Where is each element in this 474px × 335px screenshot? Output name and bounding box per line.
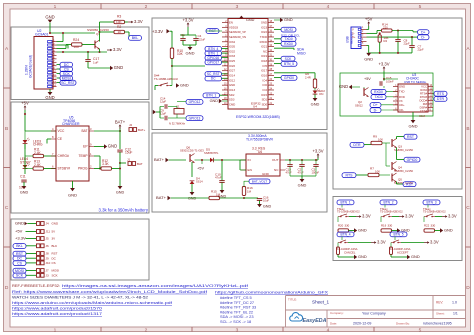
svg-text:J9: J9 bbox=[46, 256, 49, 260]
svg-text:https://www.adafruit.com/produ: https://www.adafruit.com/product/1317 bbox=[12, 311, 103, 316]
svg-text:https://github.com/moononourna: https://github.com/moononournation/Ardui… bbox=[215, 289, 329, 294]
svg-text:J3: J3 bbox=[46, 273, 49, 277]
svg-text:D: D bbox=[5, 285, 9, 291]
svg-text:D+: D+ bbox=[352, 35, 356, 39]
svg-text:BAT+: BAT+ bbox=[138, 128, 146, 132]
svg-text:C: C bbox=[466, 205, 470, 211]
svg-text:R4: R4 bbox=[384, 39, 388, 43]
svg-text:RST: RST bbox=[16, 252, 24, 256]
svg-text:NC: NC bbox=[263, 49, 267, 53]
svg-text:BAT+: BAT+ bbox=[156, 195, 167, 200]
svg-text:Date:: Date: bbox=[330, 321, 337, 325]
svg-text:EP: EP bbox=[83, 145, 87, 149]
svg-text:TXD0: TXD0 bbox=[284, 37, 292, 41]
svg-text:4: 4 bbox=[327, 327, 330, 333]
svg-text:CS: CS bbox=[52, 261, 56, 265]
svg-text:BTN_3: BTN_3 bbox=[426, 201, 436, 205]
svg-text:SS8050_C2150: SS8050_C2150 bbox=[394, 169, 413, 173]
svg-text:https://images-na.ssl-images-a: https://images-na.ssl-images-amazon.com/… bbox=[62, 283, 249, 288]
svg-text:U4: U4 bbox=[253, 105, 257, 109]
svg-text:3.3V: 3.3V bbox=[405, 214, 414, 219]
svg-text:GND: GND bbox=[399, 85, 405, 89]
svg-text:CHRG: CHRG bbox=[33, 143, 43, 147]
svg-text:GND: GND bbox=[114, 65, 123, 70]
svg-text:RXD0: RXD0 bbox=[284, 42, 293, 46]
svg-text:IO14: IO14 bbox=[229, 74, 235, 78]
svg-text:22uF: 22uF bbox=[199, 37, 205, 41]
svg-text:J1: J1 bbox=[127, 157, 130, 161]
svg-text:2.4K: 2.4K bbox=[34, 163, 41, 167]
svg-text:+3.3V: +3.3V bbox=[15, 236, 26, 241]
svg-text:+5V: +5V bbox=[364, 77, 371, 81]
svg-text:SCK: SCK bbox=[63, 72, 71, 76]
svg-text:BTN_4: BTN_4 bbox=[340, 233, 350, 237]
svg-text:N 32.768KHz: N 32.768KHz bbox=[169, 122, 186, 126]
svg-text:10K: 10K bbox=[378, 137, 383, 141]
svg-text:2: 2 bbox=[145, 327, 148, 333]
svg-text:R9: R9 bbox=[373, 134, 377, 138]
svg-text:SC_RST: SC_RST bbox=[207, 72, 220, 76]
svg-text:DC: DC bbox=[64, 63, 70, 67]
svg-text:SD2: SD2 bbox=[229, 93, 235, 97]
svg-text:DTR: DTR bbox=[437, 97, 445, 101]
svg-text:IO0: IO0 bbox=[263, 83, 268, 87]
svg-text:RST: RST bbox=[406, 182, 414, 186]
svg-text:3.3V: 3.3V bbox=[377, 240, 386, 245]
svg-text:10uF: 10uF bbox=[263, 199, 269, 203]
svg-text:3V: 3V bbox=[52, 237, 56, 241]
svg-text:RTS: RTS bbox=[346, 173, 354, 177]
svg-text:100nF: 100nF bbox=[386, 79, 394, 83]
svg-text:10K: 10K bbox=[177, 52, 184, 56]
svg-text:ON: ON bbox=[319, 92, 323, 96]
svg-text:GND: GND bbox=[262, 172, 270, 176]
svg-text:IO34: IO34 bbox=[229, 40, 235, 44]
svg-text:+5V: +5V bbox=[365, 17, 373, 22]
svg-text:GND: GND bbox=[15, 221, 24, 226]
svg-text:R24: R24 bbox=[73, 38, 79, 42]
svg-text:GND: GND bbox=[116, 190, 125, 194]
svg-text:GND: GND bbox=[45, 95, 54, 100]
svg-text:100: 100 bbox=[74, 45, 79, 49]
svg-text:EN: EN bbox=[248, 168, 252, 172]
svg-text:GND: GND bbox=[52, 222, 59, 226]
svg-text:IO15: IO15 bbox=[261, 93, 267, 97]
svg-text:TLV75533PDBVR: TLV75533PDBVR bbox=[246, 138, 274, 142]
svg-text:RXD0: RXD0 bbox=[260, 40, 268, 44]
svg-text:D: D bbox=[466, 285, 470, 291]
svg-text:J4: J4 bbox=[46, 222, 49, 226]
svg-text:22pF: 22pF bbox=[404, 42, 410, 46]
svg-text:BKL: BKL bbox=[132, 36, 139, 40]
svg-text:+5V: +5V bbox=[21, 101, 29, 106]
svg-text:EasyEDA: EasyEDA bbox=[303, 318, 327, 324]
svg-text:GPIO13: GPIO13 bbox=[189, 116, 201, 120]
svg-text:15uF: 15uF bbox=[125, 151, 132, 155]
svg-text:OUT: OUT bbox=[272, 158, 279, 162]
svg-text:DC: DC bbox=[211, 77, 216, 81]
svg-text:10K: 10K bbox=[375, 169, 380, 173]
svg-text:TS-1096B-A2B3-D2: TS-1096B-A2B3-D2 bbox=[380, 210, 403, 214]
svg-text:GND: GND bbox=[358, 254, 367, 259]
svg-text:TS-1096B-A2B3-D2: TS-1096B-A2B3-D2 bbox=[154, 77, 178, 81]
svg-text:C11: C11 bbox=[20, 175, 26, 179]
svg-text:NC: NC bbox=[274, 168, 279, 172]
svg-text:GND: GND bbox=[444, 228, 453, 233]
svg-text:GND: GND bbox=[229, 83, 235, 87]
svg-text:12pF: 12pF bbox=[160, 112, 166, 116]
svg-text:IO35: IO35 bbox=[229, 45, 235, 49]
svg-text:SCL -> SCK -> 18: SCL -> SCK -> 18 bbox=[220, 319, 251, 324]
svg-text:SD1: SD1 bbox=[262, 98, 268, 102]
svg-text:22pF: 22pF bbox=[418, 48, 424, 52]
svg-text:SS8050TPL: SS8050TPL bbox=[204, 151, 219, 155]
svg-text:PROG: PROG bbox=[78, 167, 88, 171]
svg-text:ACCEPT: ACCEPT bbox=[397, 250, 409, 254]
svg-text:STDBY: STDBY bbox=[20, 160, 32, 164]
svg-text:WATCH SIZES DIAMETERS J M -> 3: WATCH SIZES DIAMETERS J M -> 32-41, L ->… bbox=[12, 294, 149, 299]
svg-text:SCK: SCK bbox=[285, 57, 292, 61]
svg-text:SCK: SCK bbox=[52, 273, 58, 277]
svg-text:CS: CS bbox=[64, 67, 70, 71]
svg-text:rubenchevez1995: rubenchevez1995 bbox=[423, 322, 452, 326]
svg-text:R19: R19 bbox=[381, 223, 387, 227]
svg-text:BTN_4: BTN_4 bbox=[208, 47, 218, 51]
svg-text:TS-1096B-A2B3-D2: TS-1096B-A2B3-D2 bbox=[337, 210, 360, 214]
svg-text:C1: C1 bbox=[181, 33, 185, 37]
svg-text:S9301CDS-T1-GE3: S9301CDS-T1-GE3 bbox=[180, 149, 204, 153]
svg-text:GND: GND bbox=[364, 57, 373, 62]
svg-text:IO19: IO19 bbox=[261, 54, 267, 58]
svg-text:GND: GND bbox=[358, 228, 367, 233]
svg-text:3.3k for a 350mAh battery: 3.3k for a 350mAh battery bbox=[99, 207, 149, 212]
svg-text:BTN_1: BTN_1 bbox=[208, 52, 218, 56]
svg-text:BTN_5: BTN_5 bbox=[284, 62, 294, 66]
svg-text:TXD: TXD bbox=[399, 90, 405, 94]
svg-text:IO22: IO22 bbox=[261, 30, 267, 34]
svg-text:USB: USB bbox=[346, 36, 350, 43]
svg-text:IO13: IO13 bbox=[229, 88, 235, 92]
svg-text:+5V: +5V bbox=[15, 229, 23, 234]
svg-text:RXD0: RXD0 bbox=[374, 90, 383, 94]
svg-text:GND: GND bbox=[263, 204, 272, 208]
svg-text:2: 2 bbox=[145, 4, 148, 10]
svg-text:+3.3V: +3.3V bbox=[312, 149, 323, 154]
svg-text:3.3V: 3.3V bbox=[430, 240, 439, 245]
svg-text:330: 330 bbox=[345, 223, 350, 227]
svg-text:BAT+: BAT+ bbox=[115, 120, 126, 125]
svg-text:RST: RST bbox=[52, 252, 58, 256]
svg-text:GPIO0: GPIO0 bbox=[284, 76, 294, 80]
svg-text:R2: R2 bbox=[117, 25, 121, 29]
svg-text:3: 3 bbox=[236, 4, 239, 10]
svg-text:GPIO0: GPIO0 bbox=[407, 158, 418, 162]
svg-text:+3.3V: +3.3V bbox=[378, 62, 389, 67]
svg-text:IN: IN bbox=[248, 158, 251, 162]
svg-text:+3.3V: +3.3V bbox=[182, 18, 193, 23]
svg-text:R7: R7 bbox=[370, 166, 374, 170]
svg-text:STDBY#: STDBY# bbox=[58, 167, 71, 171]
svg-text:4: 4 bbox=[327, 4, 330, 10]
svg-text:C114: C114 bbox=[419, 114, 426, 118]
svg-text:Drawn By:: Drawn By: bbox=[396, 321, 410, 325]
svg-text:GND: GND bbox=[45, 15, 54, 20]
svg-text:12pF: 12pF bbox=[160, 100, 166, 104]
svg-text:IO4: IO4 bbox=[263, 78, 268, 82]
svg-text:Company:: Company: bbox=[330, 311, 344, 315]
svg-text:TEMP: TEMP bbox=[79, 154, 88, 158]
svg-text:2.4R: 2.4R bbox=[305, 75, 311, 79]
svg-text:BTN_2: BTN_2 bbox=[383, 201, 393, 205]
svg-text:5V: 5V bbox=[52, 230, 56, 234]
svg-text:1.0: 1.0 bbox=[452, 301, 457, 305]
svg-text:BAT: BAT bbox=[137, 162, 143, 166]
svg-text:CMD: CMD bbox=[229, 102, 235, 106]
svg-text:TXD0: TXD0 bbox=[374, 95, 382, 99]
svg-text:REF-FIREBEETLE-ESP32:: REF-FIREBEETLE-ESP32: bbox=[12, 283, 60, 288]
svg-text:B: B bbox=[5, 126, 8, 132]
svg-text:MOSI: MOSI bbox=[284, 28, 292, 32]
svg-text:RST: RST bbox=[407, 135, 415, 139]
svg-text:GND: GND bbox=[409, 124, 418, 129]
svg-text:IO16: IO16 bbox=[261, 74, 267, 78]
svg-text:VCC: VCC bbox=[58, 129, 65, 133]
svg-text:BTN_1: BTN_1 bbox=[206, 94, 216, 98]
svg-text:GC9A01: GC9A01 bbox=[35, 33, 48, 37]
svg-text:TXD0: TXD0 bbox=[260, 35, 268, 39]
svg-text:C: C bbox=[5, 205, 9, 211]
svg-text:J5: J5 bbox=[46, 237, 49, 241]
svg-text:BLK: BLK bbox=[52, 244, 58, 248]
svg-text:CHRG#: CHRG# bbox=[58, 154, 70, 158]
svg-text:GND: GND bbox=[210, 99, 219, 103]
svg-text:J8: J8 bbox=[46, 252, 49, 256]
svg-text:IO18: IO18 bbox=[261, 59, 267, 63]
svg-text:GND: GND bbox=[284, 17, 293, 22]
svg-text:J10: J10 bbox=[46, 261, 51, 265]
svg-text:RTS: RTS bbox=[437, 92, 445, 96]
svg-text:ESP32-WROOM-32D(16MB): ESP32-WROOM-32D(16MB) bbox=[236, 115, 280, 119]
svg-text:Your Company: Your Company bbox=[362, 312, 386, 316]
svg-text:SC_RST: SC_RST bbox=[61, 81, 76, 85]
svg-text:BTN_1: BTN_1 bbox=[340, 201, 350, 205]
svg-text:U6: U6 bbox=[258, 150, 262, 154]
svg-text:DC: DC bbox=[17, 257, 23, 261]
svg-text:47uF: 47uF bbox=[298, 171, 304, 175]
svg-text:IO5: IO5 bbox=[263, 64, 268, 68]
svg-text:1M: 1M bbox=[247, 189, 252, 193]
svg-text:IO2: IO2 bbox=[263, 88, 268, 92]
svg-text:BAT_VOLT: BAT_VOLT bbox=[252, 180, 267, 184]
svg-text:IO32: IO32 bbox=[229, 49, 235, 53]
svg-text:TITLE:: TITLE: bbox=[288, 297, 297, 301]
svg-text:UD+: UD+ bbox=[399, 103, 405, 107]
svg-text:2020-12-09: 2020-12-09 bbox=[353, 322, 371, 326]
svg-text:BTN_5: BTN_5 bbox=[393, 233, 403, 237]
svg-text:IO26: IO26 bbox=[229, 64, 235, 68]
svg-text:GND: GND bbox=[411, 254, 420, 259]
svg-text:BKL: BKL bbox=[16, 244, 23, 248]
svg-text:CTS#: CTS# bbox=[420, 109, 428, 113]
svg-text:EN: EN bbox=[229, 21, 233, 25]
svg-text:Ref: https://www.waveshare.com: Ref: https://www.waveshare.com/w/uploadw… bbox=[12, 289, 208, 294]
svg-text:MOSI: MOSI bbox=[52, 269, 60, 273]
svg-text:10K: 10K bbox=[116, 20, 122, 24]
svg-text:SCK: SCK bbox=[16, 274, 24, 278]
svg-text:S9012: S9012 bbox=[355, 103, 363, 107]
svg-text:V: V bbox=[352, 27, 354, 31]
svg-text:3.3V: 3.3V bbox=[448, 214, 457, 219]
svg-text:GND: GND bbox=[180, 83, 189, 88]
svg-text:MOSI: MOSI bbox=[62, 76, 71, 80]
svg-text:IO17: IO17 bbox=[261, 69, 267, 73]
svg-text:GND: GND bbox=[188, 197, 197, 201]
svg-text:5: 5 bbox=[419, 4, 422, 10]
svg-text:IO21: IO21 bbox=[261, 45, 267, 49]
svg-text:3.3V: 3.3V bbox=[134, 19, 143, 24]
svg-text:47uF: 47uF bbox=[286, 171, 292, 175]
svg-text:IO23: IO23 bbox=[261, 25, 267, 29]
svg-text:DTR: DTR bbox=[353, 143, 361, 147]
svg-text:1/1: 1/1 bbox=[453, 312, 458, 316]
svg-text:D+: D+ bbox=[421, 30, 426, 34]
svg-text:SD3: SD3 bbox=[229, 98, 235, 102]
svg-text:Sheet:: Sheet: bbox=[436, 311, 445, 315]
svg-text:1uF: 1uF bbox=[93, 60, 98, 64]
svg-text:1: 1 bbox=[54, 4, 57, 10]
svg-text:3.3V: 3.3V bbox=[362, 214, 371, 219]
svg-text:47uF: 47uF bbox=[215, 176, 222, 180]
svg-text:1: 1 bbox=[54, 327, 57, 333]
svg-text:https://www.arduino.cc/en/uplo: https://www.arduino.cc/en/uploads/Main/a… bbox=[12, 300, 173, 305]
svg-text:3.3K: 3.3K bbox=[102, 162, 109, 166]
svg-text:GC9A01(round): GC9A01(round) bbox=[29, 55, 33, 78]
svg-text:GND: GND bbox=[261, 21, 267, 25]
svg-text:BAT: BAT bbox=[81, 129, 87, 133]
svg-text:CS: CS bbox=[17, 261, 23, 265]
svg-text:R3: R3 bbox=[117, 15, 121, 19]
svg-text:GND: GND bbox=[298, 183, 307, 188]
svg-text:VDD33: VDD33 bbox=[229, 25, 238, 29]
svg-text:100nF: 100nF bbox=[312, 171, 320, 175]
svg-text:SENSOR_VN: SENSOR_VN bbox=[229, 35, 246, 39]
svg-text:5: 5 bbox=[419, 327, 422, 333]
svg-text:+5V: +5V bbox=[197, 165, 204, 170]
svg-text:R22: R22 bbox=[424, 223, 430, 227]
svg-text:B: B bbox=[466, 126, 469, 132]
svg-text:GND: GND bbox=[108, 144, 117, 149]
svg-text:IO25: IO25 bbox=[229, 59, 235, 63]
svg-text:J11: J11 bbox=[46, 230, 51, 234]
svg-text:SENSOR_VP: SENSOR_VP bbox=[229, 30, 246, 34]
svg-text:MISO: MISO bbox=[297, 52, 306, 56]
svg-text:GND: GND bbox=[311, 102, 320, 107]
svg-text:GPIO16: GPIO16 bbox=[207, 56, 219, 60]
svg-text:J2: J2 bbox=[129, 123, 132, 127]
svg-text:https://www.adafruit.com/produ: https://www.adafruit.com/product/1570 bbox=[12, 306, 103, 311]
svg-text:CANCEL: CANCEL bbox=[344, 250, 356, 254]
svg-text:REV:: REV: bbox=[436, 301, 443, 305]
svg-text:D+: D+ bbox=[373, 103, 378, 107]
svg-text:TS-1096B-A2B3-D2: TS-1096B-A2B3-D2 bbox=[423, 210, 446, 214]
svg-text:GPIO12: GPIO12 bbox=[189, 100, 201, 104]
svg-text:UD-: UD- bbox=[399, 108, 404, 112]
svg-text:IO12: IO12 bbox=[229, 78, 235, 82]
svg-text:J6: J6 bbox=[46, 244, 49, 248]
svg-text:SD0: SD0 bbox=[262, 102, 268, 106]
svg-text:D-: D- bbox=[352, 31, 355, 35]
svg-text:CHARGER: CHARGER bbox=[62, 122, 80, 126]
svg-text:SS14: SS14 bbox=[196, 180, 203, 184]
svg-text:IO27: IO27 bbox=[229, 69, 235, 73]
svg-text:IO33: IO33 bbox=[229, 54, 235, 58]
svg-text:GND: GND bbox=[186, 51, 195, 56]
svg-text:+3.3V: +3.3V bbox=[152, 29, 163, 34]
svg-text:1M: 1M bbox=[216, 192, 221, 196]
svg-text:3.3V: 3.3V bbox=[113, 47, 122, 52]
svg-text:GPIO17: GPIO17 bbox=[207, 61, 219, 65]
svg-text:GND: GND bbox=[68, 192, 77, 197]
svg-text:GND: GND bbox=[339, 84, 348, 89]
svg-text:330: 330 bbox=[431, 223, 436, 227]
svg-text:GND: GND bbox=[246, 18, 255, 22]
svg-text:BAT+: BAT+ bbox=[154, 157, 165, 162]
svg-text:MOSI: MOSI bbox=[15, 269, 24, 273]
svg-text:USB TO SERIAL: USB TO SERIAL bbox=[404, 80, 427, 84]
svg-text:Sheet_1: Sheet_1 bbox=[312, 299, 330, 304]
svg-text:330: 330 bbox=[388, 223, 393, 227]
svg-text:J7: J7 bbox=[46, 269, 49, 273]
svg-text:3: 3 bbox=[236, 327, 239, 333]
svg-text:R20: R20 bbox=[338, 223, 344, 227]
svg-text:GND: GND bbox=[20, 190, 29, 194]
